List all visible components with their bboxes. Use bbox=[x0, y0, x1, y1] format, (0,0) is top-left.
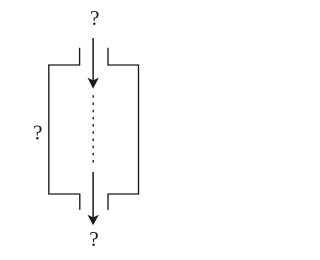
arrowhead (bottom, stealth) bbox=[88, 215, 99, 226]
svg-text:?: ? bbox=[89, 227, 98, 251]
wire: dotted line through box bbox=[92, 95, 94, 162]
wire: bottom arrow shaft bbox=[92, 172, 94, 218]
box right plate (flanged) bbox=[108, 48, 139, 210]
wire: top arrow shaft bbox=[92, 38, 94, 81]
svg-text:?: ? bbox=[33, 120, 42, 144]
arrowhead (top, stealth) bbox=[88, 78, 99, 89]
svg-text:?: ? bbox=[90, 6, 99, 30]
box left plate (flanged) bbox=[49, 48, 80, 210]
